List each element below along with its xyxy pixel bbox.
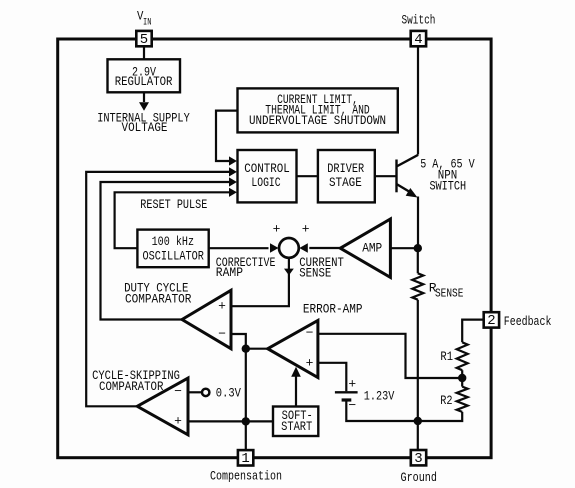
wire AMP to summing circle: [309, 247, 340, 249]
junction node C soft-start compensation: [242, 417, 250, 425]
svg-text:+: +: [174, 413, 182, 428]
box current limit thermal limit undervoltage shutdown: [238, 88, 398, 132]
svg-text:SENSE: SENSE: [435, 286, 463, 300]
svg-text:SENSE: SENSE: [299, 265, 331, 280]
svg-text:STAGE: STAGE: [329, 175, 362, 190]
arrowhead soft-start into error-amp: [291, 367, 301, 377]
wire duty-cycle output to control logic: [101, 182, 231, 320]
wire current-limit box to control logic: [216, 111, 238, 161]
svg-text:1: 1: [241, 451, 249, 467]
wire control logic to driver stage: [297, 175, 318, 177]
svg-text:REGULATOR: REGULATOR: [115, 74, 173, 89]
svg-text:1.23V: 1.23V: [364, 389, 395, 404]
svg-text:R2: R2: [440, 393, 452, 408]
resistor R2: [457, 387, 468, 412]
svg-text:−: −: [174, 384, 182, 399]
arrowhead internal supply voltage: [139, 102, 149, 111]
svg-text:COMPARATOR: COMPARATOR: [125, 291, 192, 306]
svg-text:−: −: [348, 398, 356, 413]
svg-text:+: +: [218, 298, 226, 313]
svg-text:ERROR-AMP: ERROR-AMP: [303, 302, 363, 317]
wire cycle-skipping - input to 0.3V: [188, 391, 202, 393]
summing junction circle: [279, 238, 299, 258]
arrowhead summing circle down: [284, 269, 294, 276]
box 100 kHz oscillator: [137, 230, 208, 268]
svg-text:+: +: [302, 222, 310, 237]
svg-text:RESET PULSE: RESET PULSE: [140, 197, 207, 212]
wire pin5 to regulator: [143, 46, 145, 59]
wire emitter down to node A: [417, 197, 419, 249]
wire pin4 down to collector: [417, 46, 419, 154]
op-amp cycle-skipping comparator: [137, 378, 188, 435]
svg-text:START: START: [281, 419, 312, 434]
arrowhead cycle-skipping into control logic: [229, 167, 237, 176]
pin 5 box: [136, 31, 499, 466]
arrowhead reset pulse into control logic: [229, 188, 237, 197]
junction node E R1 R2 divider: [458, 374, 466, 382]
battery 1.23V plates: [335, 392, 358, 400]
svg-text:+: +: [273, 222, 281, 237]
arrowhead duty-cycle into control logic: [229, 177, 237, 186]
op-amp AMP: [340, 219, 390, 277]
svg-text:0.3V: 0.3V: [216, 386, 241, 401]
wire node A to R SENSE: [417, 248, 419, 273]
svg-text:LOGIC: LOGIC: [251, 175, 280, 190]
svg-text:IN: IN: [143, 16, 151, 28]
svg-text:Feedback: Feedback: [504, 314, 552, 329]
wire error-amp - input to R1 R2 node: [318, 334, 462, 378]
wire regulator to internal supply arrow: [143, 92, 145, 102]
svg-text:−: −: [218, 326, 226, 341]
svg-text:4: 4: [414, 32, 422, 48]
svg-text:AMP: AMP: [362, 240, 382, 255]
box control logic: [238, 150, 297, 202]
transistor Q1 emitter: [397, 184, 414, 194]
svg-text:COMPARATOR: COMPARATOR: [99, 379, 164, 394]
wire error-amp + input to 1.23V battery: [318, 363, 346, 392]
arrowhead oscillator into summing circle: [270, 243, 279, 253]
junction node B error-amp output: [242, 345, 250, 353]
wire oscillator to summing circle: [209, 247, 269, 249]
svg-text:100 kHz: 100 kHz: [152, 234, 194, 249]
resistor R SENSE: [412, 273, 423, 299]
op-amp duty cycle comparator: [182, 290, 231, 348]
0.3V reference terminal circle: [202, 389, 209, 396]
svg-text:+: +: [348, 377, 356, 392]
wire R1 bottom to R2 top: [461, 370, 463, 386]
op-amp error-amp: [268, 320, 318, 377]
wire summing circle down to duty-cycle + input: [231, 257, 289, 306]
wire duty-cycle - input: [231, 334, 246, 349]
wire cycle-skipping + input to soft-start: [188, 420, 273, 422]
svg-text:+: +: [306, 355, 314, 370]
svg-text:Switch: Switch: [402, 13, 436, 28]
wire driver stage to transistor base: [375, 175, 396, 177]
svg-text:DRIVER: DRIVER: [327, 161, 364, 176]
junction node D ground net: [414, 417, 422, 425]
wire node B down to pin 1: [245, 349, 247, 451]
svg-text:OSCILLATOR: OSCILLATOR: [143, 249, 205, 264]
wire R1 top to pin 2: [462, 320, 483, 343]
IC boundary: [58, 39, 491, 458]
wire battery bottom to ground node and R2: [346, 400, 462, 421]
svg-text:VOLTAGE: VOLTAGE: [122, 120, 168, 135]
transistor Q1 collector: [397, 155, 419, 167]
wire R SENSE to ground node: [417, 300, 419, 421]
wire AMP output to node A: [390, 247, 417, 249]
wire error-amp output to node B: [246, 348, 268, 350]
box soft-start: [273, 407, 318, 437]
junction node A emitter AMP RSENSE: [414, 244, 422, 252]
svg-text:SWITCH: SWITCH: [429, 178, 466, 193]
svg-text:CONTROL: CONTROL: [244, 161, 290, 176]
pin 2 box: [484, 312, 499, 327]
transistor Q1 emitter arrowhead: [406, 188, 418, 198]
svg-text:5: 5: [140, 32, 148, 48]
pin 4 box: [411, 31, 426, 46]
transistor Q1 base bar: [395, 160, 397, 193]
resistor R1: [457, 342, 468, 370]
pin 3 box: [411, 450, 426, 465]
svg-text:Compensation: Compensation: [210, 468, 282, 483]
wire ground node to pin 3: [417, 421, 419, 450]
svg-text:3: 3: [414, 451, 422, 467]
svg-text:2: 2: [487, 313, 495, 329]
pin 1 box: [238, 450, 253, 465]
svg-text:Ground: Ground: [401, 470, 437, 485]
svg-text:UNDERVOLTAGE SHUTDOWN: UNDERVOLTAGE SHUTDOWN: [249, 113, 386, 128]
wire soft-start up arrow stem: [295, 376, 297, 407]
svg-text:RAMP: RAMP: [216, 265, 243, 280]
arrowhead AMP into summing circle: [299, 243, 308, 253]
box 2.9V regulator: [108, 59, 398, 436]
wire oscillator reset pulse to control logic: [115, 192, 230, 248]
arrowhead current limit into control logic: [229, 156, 237, 165]
wire cycle-skipping output to control logic: [86, 172, 230, 406]
box driver stage: [318, 150, 375, 202]
svg-text:−: −: [306, 325, 314, 340]
svg-text:R1: R1: [440, 349, 453, 364]
